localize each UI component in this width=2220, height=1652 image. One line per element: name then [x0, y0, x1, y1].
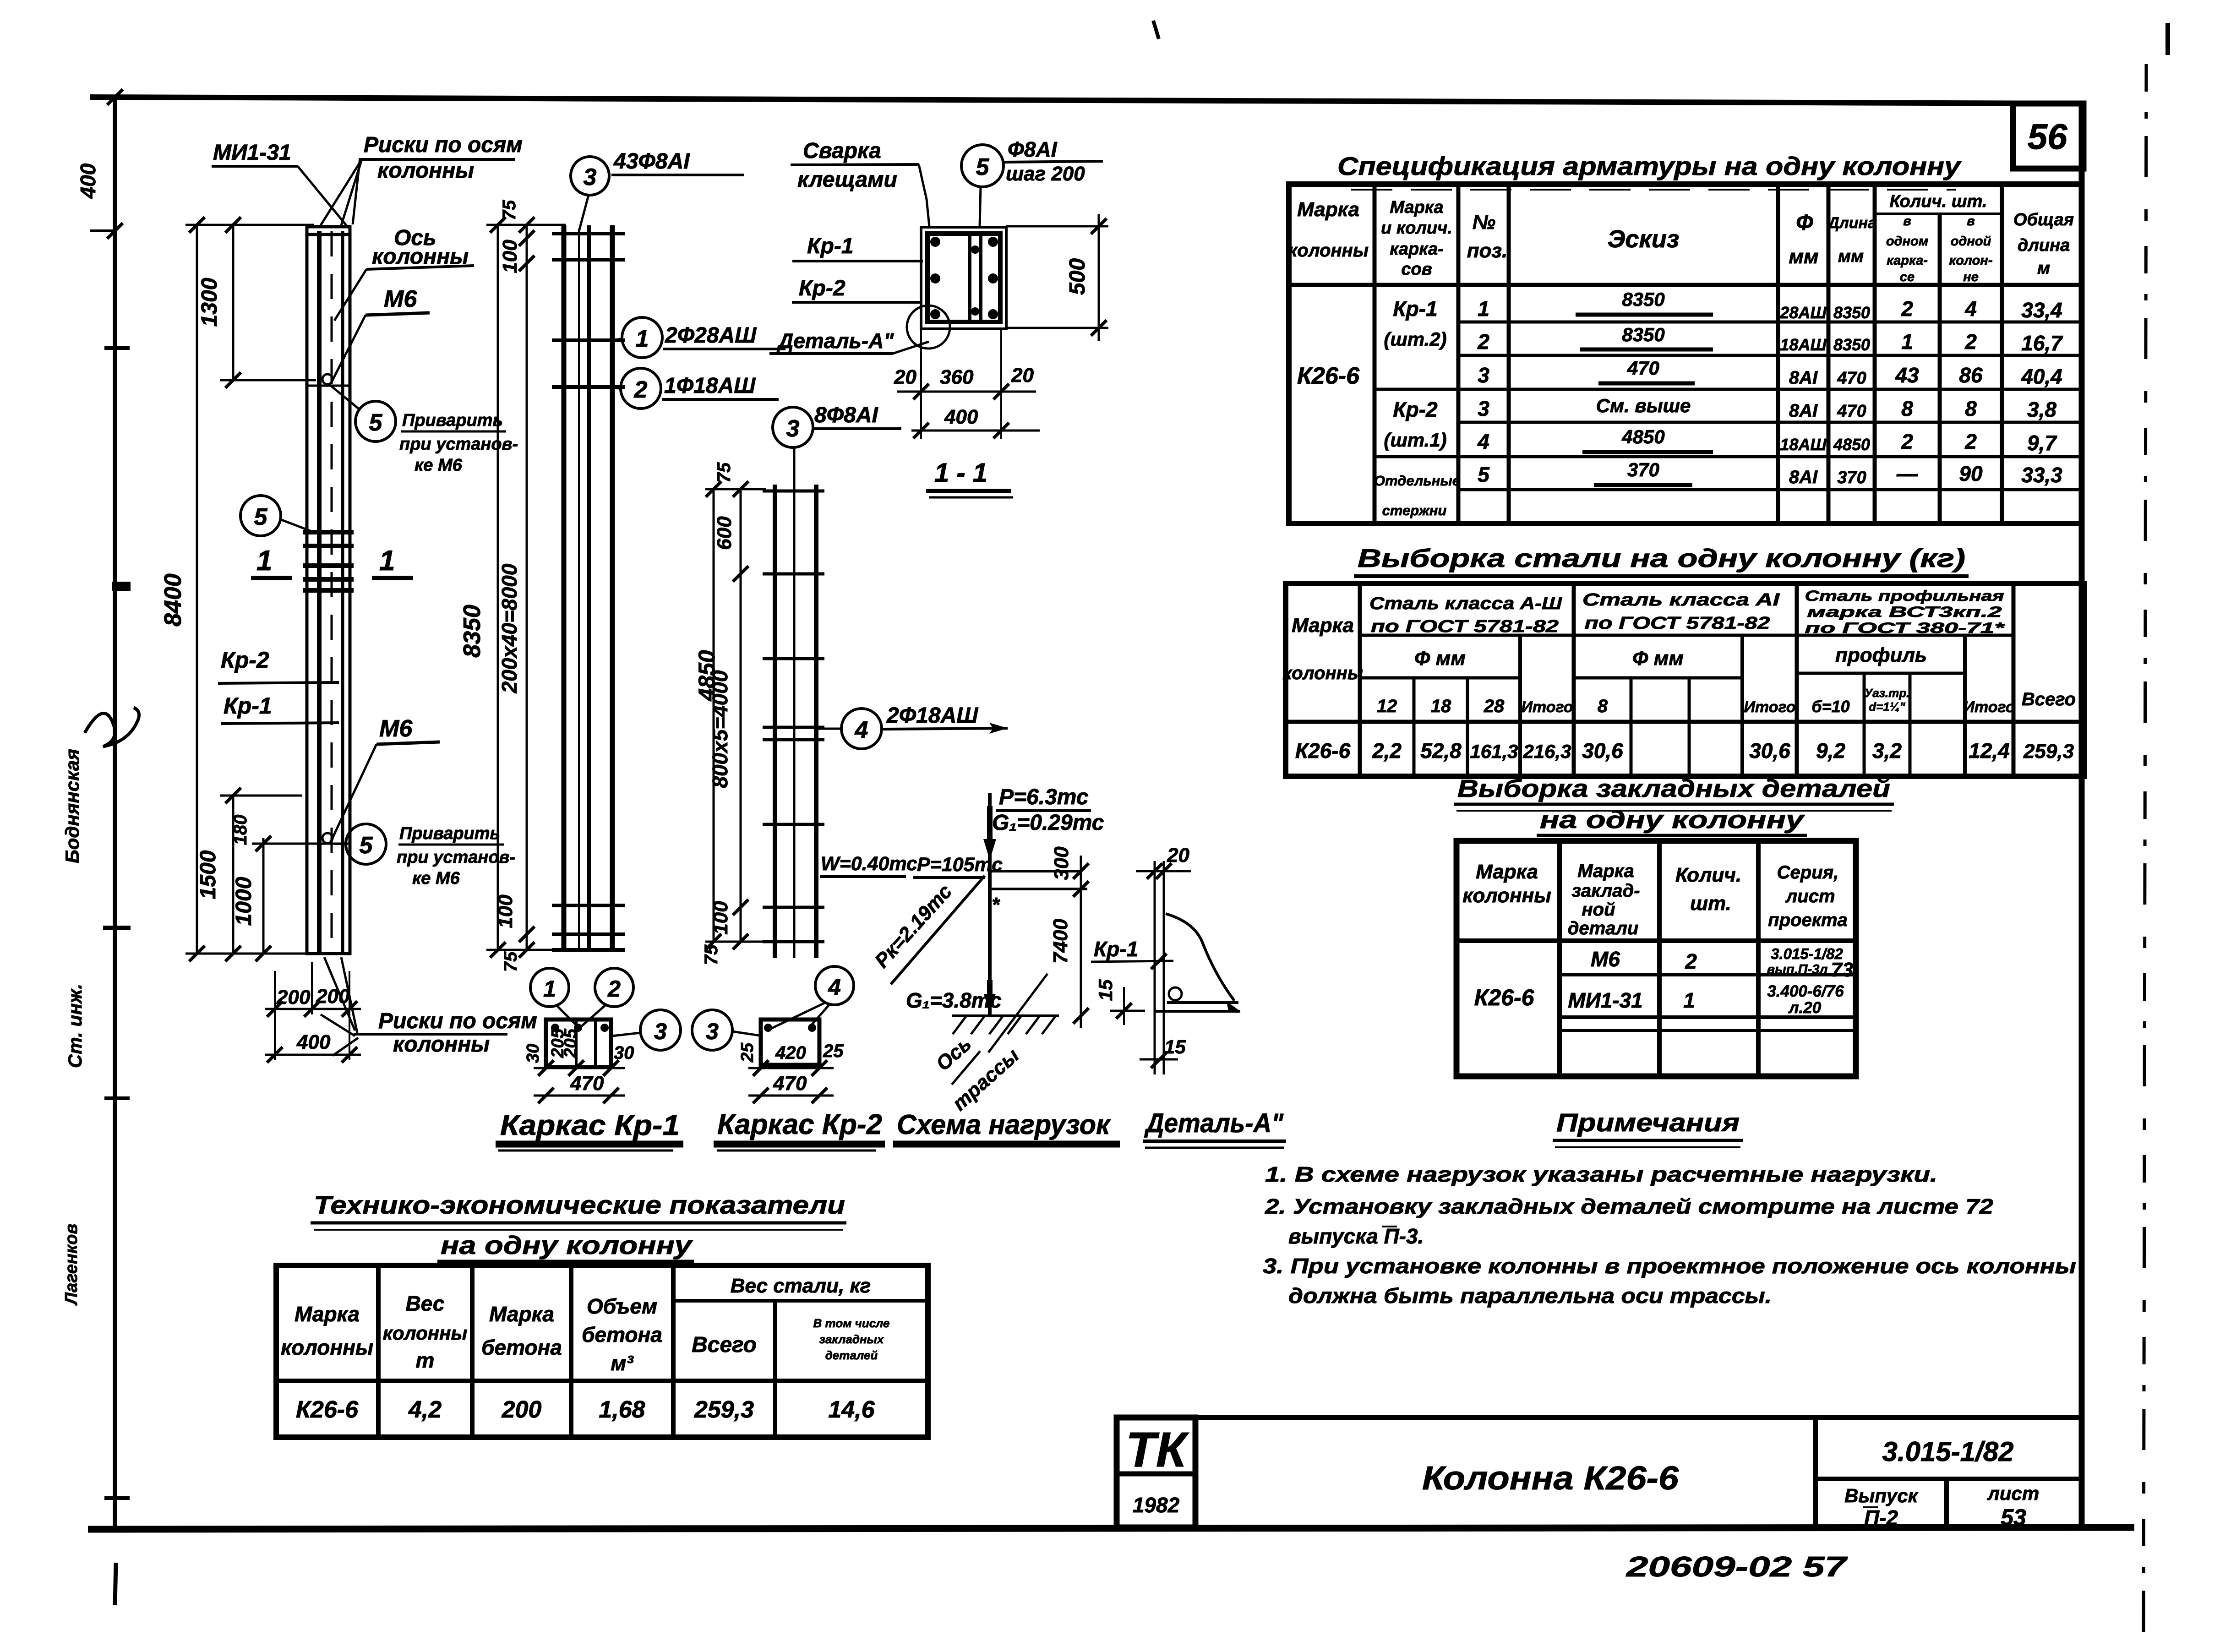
top-right corner mark	[2165, 23, 2170, 55]
svg-text:3.015-1/82: 3.015-1/82	[1882, 1436, 2014, 1467]
svg-text:М6: М6	[384, 286, 417, 312]
left margin tick y2398	[104, 1096, 130, 1100]
svg-text:Колич. шт.: Колич. шт.	[1890, 192, 1987, 211]
dimension 75/100/200x40=8000/100/75	[494, 200, 535, 972]
svg-text:8350: 8350	[1833, 303, 1870, 322]
svg-text:вып.П-3л: вып.П-3л	[1767, 962, 1828, 977]
M6 embed upper circle	[322, 374, 333, 384]
svg-text:Приварить: Приварить	[402, 411, 503, 430]
dimension 500	[1006, 214, 1108, 341]
svg-text:500: 500	[1065, 258, 1090, 295]
svg-text:W=0.40тс: W=0.40тс	[821, 853, 917, 875]
table 3 grid	[1456, 841, 1856, 1076]
svg-text:Кр-1: Кр-1	[224, 693, 272, 719]
dimension 8400	[160, 217, 314, 961]
svg-text:Деталь-А": Деталь-А"	[1144, 1108, 1284, 1138]
svg-text:2: 2	[607, 976, 621, 1002]
console line	[990, 888, 1087, 890]
svg-text:75: 75	[501, 951, 521, 972]
svg-text:400: 400	[944, 406, 978, 428]
svg-text:поз.: поз.	[1467, 240, 1507, 262]
svg-text:1: 1	[543, 976, 556, 1002]
svg-text:216,3: 216,3	[1522, 741, 1571, 762]
svg-text:Сталь класса А-Ш: Сталь класса А-Ш	[1369, 594, 1562, 613]
svg-text:4850: 4850	[1833, 435, 1870, 454]
svg-text:т: т	[416, 1348, 435, 1372]
svg-text:200: 200	[316, 985, 350, 1008]
svg-text:Всего: Всего	[692, 1333, 757, 1357]
svg-text:К26-6: К26-6	[1474, 985, 1535, 1010]
svg-text:1: 1	[1683, 988, 1695, 1012]
svg-text:л.20: л.20	[1788, 999, 1822, 1017]
svg-text:12: 12	[1377, 696, 1397, 716]
svg-text:Риски по осям: Риски по осям	[364, 133, 523, 157]
svg-text:ке М6: ке М6	[412, 869, 460, 888]
svg-text:не: не	[1963, 270, 1979, 284]
svg-text:18АШ: 18АШ	[1780, 435, 1827, 454]
callout 3 top of Kp-2	[773, 403, 901, 447]
svg-text:4,2: 4,2	[408, 1396, 442, 1423]
caption Каркас Кр-1	[496, 1110, 683, 1150]
bottom dimension 400	[265, 1014, 361, 1063]
svg-text:Ф мм: Ф мм	[1632, 647, 1684, 670]
box 56	[2013, 104, 2084, 169]
svg-text:8: 8	[1901, 397, 1913, 420]
svg-text:470: 470	[570, 1072, 604, 1095]
svg-text:Кр-2: Кр-2	[221, 647, 269, 673]
svg-text:при установ-: при установ-	[399, 435, 518, 454]
svg-text:карка-: карка-	[1887, 253, 1928, 268]
svg-text:ной: ной	[1582, 900, 1615, 920]
svg-text:Марка: Марка	[295, 1302, 360, 1326]
M6 embed lower circle	[322, 833, 333, 843]
svg-text:73: 73	[1831, 959, 1854, 981]
left margin tick y760	[104, 346, 130, 350]
svg-text:колонны: колонны	[281, 1336, 373, 1359]
lower arrowhead	[987, 980, 993, 1001]
svg-text:370: 370	[1627, 459, 1659, 480]
svg-text:длина: длина	[2018, 236, 2070, 255]
svg-text:52,8: 52,8	[1420, 739, 1462, 763]
svg-text:бетона: бетона	[582, 1323, 662, 1347]
svg-text:Марка: Марка	[1292, 614, 1354, 637]
svg-text:1: 1	[636, 326, 649, 352]
svg-text:2. Установку закладных деталей: 2. Установку закладных деталей смотрите …	[1265, 1194, 1994, 1218]
section dim 470	[748, 1095, 834, 1097]
svg-text:по ГОСТ 380-71*: по ГОСТ 380-71*	[1805, 620, 2006, 636]
svg-text:Сталь класса АI: Сталь класса АI	[1582, 590, 1780, 610]
svg-text:К26-6: К26-6	[296, 1396, 359, 1423]
svg-text:Марка: Марка	[1476, 861, 1538, 883]
svg-text:33,4: 33,4	[2021, 298, 2062, 322]
svg-text:на одну колонну: на одну колонну	[1540, 806, 1805, 834]
svg-text:8АI: 8АI	[1789, 368, 1818, 388]
callout 5 upper with note	[331, 386, 518, 475]
svg-text:4: 4	[828, 974, 841, 1000]
svg-text:25: 25	[738, 1042, 757, 1063]
svg-text:профиль: профиль	[1835, 644, 1927, 666]
svg-text:Кр-2: Кр-2	[799, 276, 845, 300]
svg-text:См. выше: См. выше	[1596, 395, 1691, 416]
svg-text:370: 370	[1837, 468, 1866, 487]
svg-text:колонны: колонны	[1288, 240, 1369, 261]
svg-text:9,2: 9,2	[1816, 739, 1845, 763]
svg-text:Марка: Марка	[1390, 198, 1443, 217]
top center small mark	[1153, 21, 1159, 39]
svg-text:Кр-1: Кр-1	[1094, 937, 1138, 961]
svg-text:проекта: проекта	[1768, 910, 1848, 930]
column outline	[307, 227, 350, 954]
label М6 (lower)	[331, 715, 440, 842]
svg-text:400: 400	[296, 1031, 331, 1053]
svg-text:Р=6.3тс: Р=6.3тс	[999, 785, 1089, 809]
column top cap second line	[307, 233, 350, 236]
svg-text:2: 2	[1901, 430, 1913, 453]
svg-text:8350: 8350	[1833, 335, 1870, 354]
svg-text:56: 56	[2028, 116, 2067, 157]
dimension 1300	[197, 217, 316, 388]
frame right line	[2079, 104, 2085, 1530]
margin staff names (rotated)	[61, 708, 139, 1306]
выпуск/лист divider	[1944, 1479, 1949, 1529]
section Kp-2 verticals	[968, 234, 971, 322]
svg-text:2: 2	[634, 376, 648, 403]
svg-text:П-2: П-2	[1864, 1506, 1898, 1530]
svg-text:Отдельные: Отдельные	[1374, 473, 1460, 489]
section dims 30/205/205/30	[534, 1067, 625, 1069]
svg-text:в: в	[1967, 214, 1975, 229]
svg-text:Выпуск: Выпуск	[1844, 1485, 1919, 1506]
svg-text:1500: 1500	[196, 850, 220, 899]
svg-text:28: 28	[1484, 696, 1505, 716]
svg-text:Схема нагрузок: Схема нагрузок	[897, 1109, 1111, 1140]
svg-text:100: 100	[494, 894, 517, 928]
callouts 1 2 3 on sketch	[530, 968, 569, 1007]
svg-text:1000: 1000	[232, 877, 256, 926]
frame bottom line	[88, 1527, 2134, 1529]
detail A circle on section	[907, 305, 950, 349]
label Сварка клещами	[791, 139, 929, 226]
svg-text:лист: лист	[1987, 1483, 2040, 1504]
left margin tick y2026	[103, 926, 131, 930]
svg-text:15: 15	[1164, 1036, 1186, 1058]
svg-text:2: 2	[1477, 330, 1489, 354]
svg-text:В том числе: В том числе	[813, 1316, 890, 1330]
svg-text:2,2: 2,2	[1372, 739, 1402, 763]
svg-text:Деталь-А": Деталь-А"	[776, 329, 894, 353]
cage axis leader	[578, 229, 580, 950]
svg-text:Сварка: Сварка	[803, 139, 881, 163]
svg-text:43Ф8АI: 43Ф8АI	[613, 149, 690, 174]
dimension 75/600/800x5=4000/100/75	[701, 462, 748, 965]
svg-text:3: 3	[1478, 397, 1489, 420]
svg-text:43: 43	[1895, 363, 1919, 387]
svg-text:200: 200	[276, 986, 311, 1009]
svg-text:Марка: Марка	[1577, 861, 1634, 881]
svg-text:3. При установке колонны в про: 3. При установке колонны в проектное пол…	[1263, 1254, 2076, 1278]
svg-text:на одну колонну: на одну колонну	[441, 1231, 693, 1259]
svg-text:должна быть параллельна оси тр: должна быть параллельна оси трассы.	[1288, 1284, 1772, 1308]
svg-text:2Ф18АШ: 2Ф18АШ	[886, 703, 978, 728]
gusset curve	[1166, 914, 1234, 1001]
svg-text:2: 2	[1964, 430, 1977, 453]
svg-text:Ф: Ф	[1796, 211, 1813, 235]
svg-text:200х40=8000: 200х40=8000	[497, 563, 521, 693]
svg-text:Приварить: Приварить	[399, 824, 500, 843]
svg-text:клещами: клещами	[797, 168, 897, 192]
svg-text:28АШ: 28АШ	[1779, 303, 1827, 322]
svg-text:шаг 200: шаг 200	[1006, 163, 1085, 185]
callout 4 with label 2Ф18АШ	[816, 703, 1008, 749]
svg-text:Серия,: Серия,	[1777, 862, 1839, 883]
svg-text:400: 400	[76, 163, 100, 199]
svg-text:Спецификация арматуры на одну: Спецификация арматуры на одну колонну	[1337, 152, 1962, 180]
divider after title cell	[1813, 1418, 1818, 1529]
svg-text:Боднянская: Боднянская	[61, 749, 83, 863]
svg-text:б=10: б=10	[1811, 697, 1849, 716]
svg-text:1 - 1: 1 - 1	[934, 458, 987, 488]
svg-text:м: м	[2037, 259, 2050, 278]
label МИ1-31	[212, 141, 347, 226]
svg-text:8350: 8350	[1622, 289, 1664, 310]
frame top line	[90, 97, 2082, 104]
svg-text:30,6: 30,6	[1749, 739, 1790, 763]
page right edge dashed artifact	[2144, 64, 2146, 1644]
svg-text:18АШ: 18АШ	[1780, 335, 1827, 354]
svg-text:8Ф8АI: 8Ф8АI	[814, 403, 879, 427]
svg-text:33,3: 33,3	[2021, 463, 2062, 487]
svg-text:25: 25	[823, 1041, 844, 1061]
svg-text:75: 75	[714, 462, 734, 483]
svg-text:Колонна К26-6: Колонна К26-6	[1422, 1460, 1679, 1497]
svg-text:30,6: 30,6	[1582, 739, 1623, 763]
svg-text:3: 3	[654, 1019, 667, 1044]
svg-text:Итого: Итого	[1963, 698, 2015, 716]
svg-text:1Ф18АШ: 1Ф18АШ	[664, 374, 756, 398]
svg-text:100: 100	[499, 240, 521, 273]
svg-text:G₁=3.8тс: G₁=3.8тс	[906, 988, 1002, 1012]
svg-text:40,4: 40,4	[2021, 365, 2062, 388]
column axis dashed	[331, 231, 333, 952]
svg-text:ке М6: ке М6	[415, 456, 463, 475]
svg-text:Технико-экономические показате: Технико-экономические показатели	[314, 1190, 845, 1219]
section outer rect	[921, 227, 1006, 329]
callout 2 with label 1Ф18АШ	[591, 368, 779, 409]
svg-text:одной: одной	[1951, 234, 1991, 249]
svg-text:Риски по осям: Риски по осям	[378, 1009, 537, 1033]
section mark 1 left	[251, 545, 292, 578]
svg-text:3,2: 3,2	[1872, 739, 1902, 763]
svg-text:колонны: колонны	[393, 1032, 490, 1057]
callout 5 with label Ф8АI шаг 200	[961, 137, 1103, 226]
label Риски по осям колонны (bottom)	[354, 1009, 537, 1057]
svg-text:по ГОСТ 5781-82: по ГОСТ 5781-82	[1585, 614, 1770, 633]
label Риски по осям колонны (top)	[321, 133, 523, 225]
cage bars	[773, 485, 777, 958]
svg-text:2: 2	[1901, 297, 1913, 321]
svg-text:К26-6: К26-6	[1295, 739, 1351, 763]
svg-text:75: 75	[499, 200, 519, 220]
label Кр-2 with leader	[218, 647, 339, 683]
svg-text:(шт.2): (шт.2)	[1384, 328, 1446, 350]
svg-text:600: 600	[713, 516, 736, 550]
weld circle	[1169, 987, 1182, 1000]
section dims 25/420/25	[748, 1067, 834, 1069]
svg-text:шт.: шт.	[1690, 892, 1731, 915]
svg-text:Общая: Общая	[2013, 210, 2074, 229]
svg-text:3: 3	[786, 415, 800, 442]
svg-text:Выборка закладных деталей: Выборка закладных деталей	[1457, 775, 1890, 802]
svg-text:М6: М6	[1591, 947, 1620, 971]
M6 embed lower line	[307, 843, 350, 845]
svg-text:Ф мм: Ф мм	[1414, 647, 1466, 670]
svg-text:бетона: бетона	[481, 1336, 562, 1359]
svg-text:d=1¼": d=1¼"	[1869, 700, 1905, 714]
svg-text:8350: 8350	[1622, 324, 1664, 345]
svg-text:5: 5	[360, 832, 373, 859]
svg-text:колонны: колонны	[377, 158, 474, 183]
dimension 400	[911, 406, 1040, 438]
svg-text:К26-6: К26-6	[1297, 363, 1360, 389]
svg-text:Ф8АI: Ф8АI	[1008, 137, 1058, 161]
ground line and hatch	[952, 1014, 1059, 1017]
svg-text:МИ1-31: МИ1-31	[1568, 988, 1642, 1012]
svg-text:8: 8	[1598, 696, 1608, 716]
M6 embed upper line	[307, 385, 350, 387]
svg-text:4: 4	[1477, 430, 1489, 453]
svg-text:15: 15	[1095, 979, 1116, 1001]
label Кр-1 with leader	[221, 693, 339, 724]
svg-text:20609-02 57: 20609-02 57	[1626, 1551, 1848, 1583]
svg-text:Уаз.тр.: Уаз.тр.	[1865, 686, 1910, 700]
svg-text:М6: М6	[379, 715, 413, 742]
3.015 cell bottom	[1816, 1477, 2081, 1481]
svg-text:Вес: Вес	[406, 1292, 445, 1315]
svg-text:колон-: колон-	[1949, 253, 1993, 268]
frame left line	[113, 97, 117, 1529]
callout 1 with label 2Ф28АШ	[614, 317, 785, 358]
svg-text:20: 20	[1011, 364, 1034, 387]
svg-text:Объем: Объем	[587, 1294, 657, 1318]
svg-text:360: 360	[940, 366, 974, 388]
svg-text:(шт.1): (шт.1)	[1384, 429, 1446, 451]
svg-text:7400: 7400	[1049, 919, 1072, 964]
dimension 8350	[459, 217, 566, 958]
svg-text:1: 1	[256, 545, 272, 577]
signature squiggle	[85, 708, 139, 747]
dimension 1500	[196, 788, 302, 961]
svg-text:Всего: Всего	[2022, 689, 2076, 709]
svg-text:420: 420	[775, 1043, 806, 1063]
svg-text:Выборка стали на одну колонну: Выборка стали на одну колонну (кг)	[1358, 544, 1965, 572]
svg-text:Сталь профильная: Сталь профильная	[1805, 588, 2004, 604]
label М6 (upper)	[331, 286, 430, 384]
svg-text:Кр-2: Кр-2	[1393, 398, 1438, 421]
svg-text:200: 200	[502, 1396, 542, 1423]
svg-text:3: 3	[706, 1019, 719, 1044]
svg-text:800х5=4000: 800х5=4000	[708, 670, 732, 788]
svg-text:205: 205	[561, 1028, 580, 1058]
svg-text:470: 470	[1837, 369, 1866, 388]
svg-text:2: 2	[1685, 949, 1697, 973]
svg-text:3: 3	[1478, 363, 1489, 387]
svg-text:Лагенков: Лагенков	[62, 1224, 81, 1306]
dimension 4850	[694, 481, 766, 949]
svg-text:30: 30	[524, 1044, 543, 1063]
table 2 grid	[1286, 583, 2084, 776]
svg-text:мм: мм	[1789, 245, 1818, 268]
cage ties	[763, 490, 824, 493]
svg-text:Вес стали, кг: Вес стали, кг	[731, 1275, 871, 1297]
svg-text:5: 5	[1478, 463, 1490, 486]
caption Каркас Кр-2	[714, 1109, 885, 1150]
svg-text:470: 470	[1627, 357, 1659, 379]
svg-text:сов: сов	[1401, 260, 1432, 279]
section hoop Kp-1	[927, 234, 1000, 322]
svg-text:выпуска П-3.: выпуска П-3.	[1288, 1224, 1424, 1248]
svg-text:180: 180	[230, 815, 251, 845]
column line	[988, 793, 992, 1016]
svg-text:75: 75	[701, 944, 721, 965]
svg-text:одном: одном	[1886, 234, 1928, 249]
svg-text:1. В схеме нагрузок указаны ра: 1. В схеме нагрузок указаны расчетные на…	[1265, 1162, 1937, 1186]
svg-text:3: 3	[584, 164, 597, 191]
weld rung marks middle	[303, 530, 354, 534]
svg-text:се: се	[1900, 270, 1915, 284]
embed plate verticals	[1154, 861, 1156, 1074]
svg-text:карка-: карка-	[1390, 240, 1444, 259]
svg-text:колонны: колонны	[1462, 884, 1551, 907]
svg-text:14,6: 14,6	[828, 1396, 875, 1423]
bottom dimension 200 200	[265, 962, 361, 1017]
svg-text:8АI: 8АI	[1789, 401, 1818, 421]
svg-text:8: 8	[1965, 397, 1977, 420]
svg-text:18: 18	[1431, 696, 1451, 716]
svg-text:90: 90	[1959, 462, 1983, 485]
svg-text:марка ВСТ3кп.2: марка ВСТ3кп.2	[1807, 604, 2002, 620]
svg-text:16,7: 16,7	[2021, 331, 2063, 355]
Kp-2 cross-section sketch	[692, 966, 854, 1103]
rebar line right	[341, 231, 344, 952]
svg-text:Кр-1: Кр-1	[807, 234, 854, 258]
svg-text:Примечания: Примечания	[1556, 1108, 1740, 1137]
svg-text:5: 5	[976, 154, 990, 180]
svg-text:5: 5	[254, 504, 268, 530]
table 1 grid	[1289, 184, 2082, 523]
rebar line left	[317, 231, 322, 952]
dimension 400 top-left margin	[76, 89, 123, 239]
dim line right	[1080, 856, 1082, 1028]
svg-text:8350: 8350	[459, 605, 485, 658]
section dim 470	[534, 1095, 625, 1097]
svg-text:Кр-1: Кр-1	[1393, 297, 1437, 321]
svg-text:53: 53	[2001, 1505, 2026, 1530]
labels Kp-1 Kp-2 leaders into section	[792, 234, 923, 302]
svg-text:86: 86	[1959, 363, 1983, 387]
svg-text:4: 4	[855, 717, 868, 743]
svg-text:лист: лист	[1785, 886, 1835, 906]
svg-text:259,3: 259,3	[2023, 740, 2074, 763]
svg-text:Марка: Марка	[1297, 198, 1359, 221]
bottom-left small vertical mark	[115, 1563, 116, 1605]
svg-text:детали: детали	[1568, 918, 1639, 938]
svg-text:закладных: закладных	[819, 1332, 884, 1346]
caption 1-1	[926, 458, 1013, 497]
svg-text:в: в	[1903, 214, 1911, 229]
svg-text:161,3: 161,3	[1470, 741, 1518, 762]
svg-text:G₁=0.29тс: G₁=0.29тс	[992, 811, 1104, 835]
svg-text:470: 470	[1837, 402, 1866, 421]
